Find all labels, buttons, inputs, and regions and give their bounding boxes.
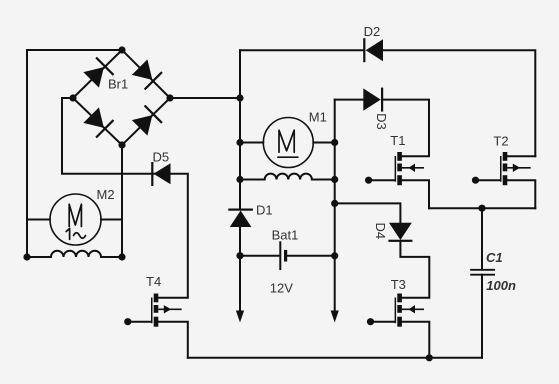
svg-text:M2: M2 (97, 187, 115, 202)
svg-text:Bat1: Bat1 (272, 228, 299, 243)
svg-text:M1: M1 (309, 110, 327, 125)
svg-text:D2: D2 (364, 24, 381, 39)
svg-text:12V: 12V (270, 281, 293, 296)
svg-text:T3: T3 (391, 277, 406, 292)
svg-text:D1: D1 (256, 203, 273, 218)
svg-text:T2: T2 (493, 134, 508, 149)
svg-text:Br1: Br1 (108, 77, 128, 92)
svg-text:D5: D5 (153, 150, 170, 165)
svg-text:T4: T4 (146, 274, 161, 289)
svg-text:C1: C1 (486, 250, 503, 265)
svg-text:D4: D4 (373, 223, 388, 240)
svg-text:D3: D3 (374, 113, 389, 130)
svg-text:T1: T1 (390, 133, 405, 148)
svg-text:100n: 100n (486, 278, 516, 293)
